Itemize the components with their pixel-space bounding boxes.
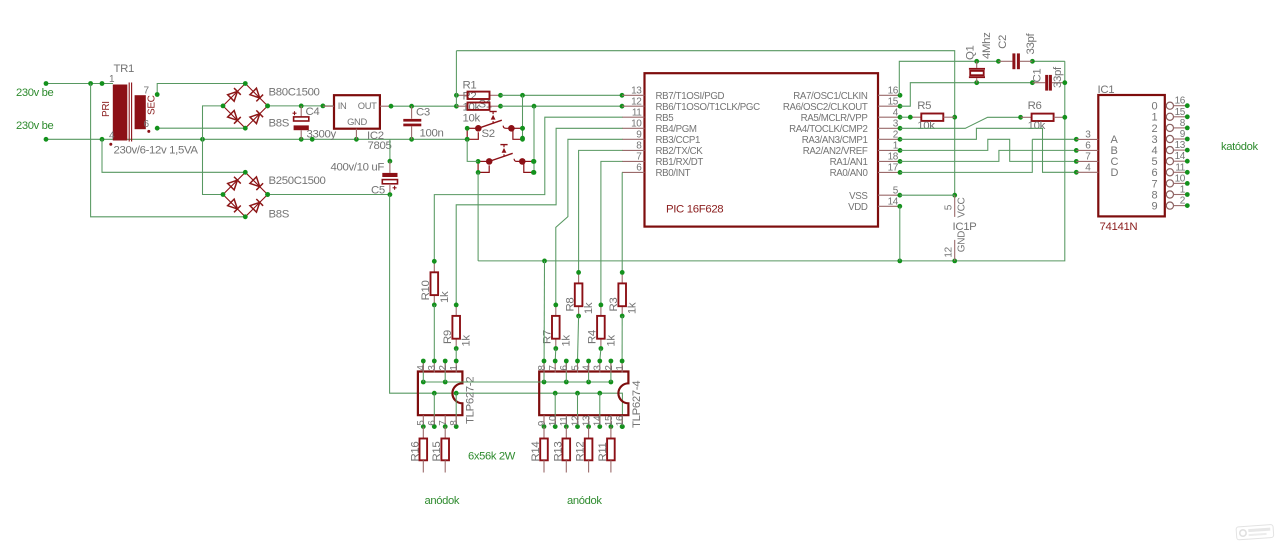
svg-text:RB2/TX/CK: RB2/TX/CK <box>656 146 704 157</box>
wire 230v line 1 <box>44 81 113 86</box>
svg-text:230v be: 230v be <box>16 120 53 132</box>
label 100n <box>420 128 444 140</box>
wire RB4 net PIC pin10 to R9 <box>456 128 622 305</box>
svg-text:9: 9 <box>1152 201 1158 213</box>
svg-text:3: 3 <box>1085 130 1091 141</box>
svg-text:R16: R16 <box>409 442 421 462</box>
svg-text:SEC: SEC <box>146 95 157 115</box>
svg-text:RA5/MCLR/VPP: RA5/MCLR/VPP <box>801 113 868 124</box>
svg-text:R8: R8 <box>564 298 576 312</box>
svg-text:10: 10 <box>548 415 559 426</box>
svg-text:12: 12 <box>570 415 581 426</box>
label GND <box>347 116 367 127</box>
svg-text:RB7/T1OSI/PGD: RB7/T1OSI/PGD <box>656 91 725 102</box>
svg-text:OUT: OUT <box>358 100 377 111</box>
label PRI <box>101 101 112 117</box>
svg-text:RB3/CCP1: RB3/CCP1 <box>656 135 701 146</box>
resistor R9 1k <box>452 303 460 351</box>
svg-text:R12: R12 <box>575 442 587 462</box>
wire RB5 net PIC pin11 to R10 <box>434 117 622 261</box>
wire TLP627-2 pin2 to cathode bus <box>444 361 446 382</box>
svg-text:1k: 1k <box>583 302 595 314</box>
label TR1 <box>114 63 134 75</box>
pin 13 of OC2 <box>582 415 593 429</box>
label 10k of R6 <box>1028 120 1046 132</box>
wire 230v line 1 to bridge2 bottom <box>91 84 246 217</box>
pin 2 of IC1 (output 9) <box>1152 196 1190 213</box>
svg-text:10: 10 <box>631 119 642 130</box>
svg-text:74141N: 74141N <box>1100 221 1138 233</box>
label katodok <box>1221 141 1258 153</box>
label R5 <box>917 100 931 112</box>
svg-text:15: 15 <box>1175 107 1186 118</box>
svg-text:7: 7 <box>548 365 559 371</box>
pin 9 of IC1 (output 3) <box>1152 129 1190 146</box>
svg-text:8: 8 <box>537 365 548 371</box>
wire R8 to TLP627-4 pin5 <box>578 316 579 361</box>
switch S1 <box>465 112 525 142</box>
svg-text:IC1: IC1 <box>1098 84 1115 96</box>
pin 11 of OC2 <box>559 415 570 429</box>
wire 7805 OUT 5V rail <box>389 104 459 109</box>
pin 16 of U1 (RA7/OSC1/CLKIN) <box>793 86 902 103</box>
wire TLP627-4 pin6 to cathode bus <box>565 361 567 382</box>
wire R4 to TLP627-4 pin3 <box>600 349 601 362</box>
svg-text:15: 15 <box>888 96 899 107</box>
wire OSC1 net pin16 to crystal and C2 <box>899 59 1001 95</box>
label 230v be (bottom) <box>16 120 53 132</box>
pin 12 of OC2 <box>570 415 581 429</box>
microcontroller U1 PIC 16F628 outline <box>645 73 879 226</box>
label 1k of R10 <box>439 291 451 303</box>
pin 3 of U1 (RA4/TOCLK/CMP2) <box>789 119 902 136</box>
label 33pf of C1 <box>1052 66 1064 88</box>
wire R1 to PIC pin13 RB7 <box>501 93 625 98</box>
svg-text:13: 13 <box>1175 140 1186 151</box>
label 1k of R4 <box>605 335 617 347</box>
label R12 <box>575 442 587 462</box>
resistor R5 10k <box>900 114 955 121</box>
wire supply rail VDD net <box>478 61 1065 263</box>
wire OSC2 net pin15 to crystal and C1 <box>900 80 1035 106</box>
wire RA2 to 74141 input C <box>900 139 1079 164</box>
svg-text:C3: C3 <box>416 106 430 118</box>
svg-text:9: 9 <box>636 130 642 141</box>
label 1k of R9 <box>461 335 473 347</box>
label R14 <box>530 442 542 462</box>
svg-text:2: 2 <box>604 365 615 371</box>
svg-text:R4: R4 <box>587 330 599 344</box>
svg-text:B8S: B8S <box>269 209 290 221</box>
svg-text:7805: 7805 <box>368 140 392 152</box>
pin 1 of U1 (RA2/AN2/VREF) <box>803 141 903 158</box>
label R13 <box>552 442 564 462</box>
label OUT <box>358 100 377 111</box>
resistor R1 <box>454 92 503 99</box>
svg-text:R3: R3 <box>608 298 620 312</box>
svg-text:8: 8 <box>449 420 460 426</box>
wire bridge1 plus to 7805 IN <box>265 104 334 109</box>
pin 13 of U1 (RB7/T1OSI/PGD) <box>622 86 725 103</box>
svg-text:7: 7 <box>636 152 642 163</box>
pin 8 of U1 (RB2/TX/CK) <box>622 141 703 158</box>
label 230v/6-12v 1,5VA <box>114 145 199 157</box>
svg-text:11: 11 <box>1175 162 1185 173</box>
svg-text:C1: C1 <box>1031 69 1043 83</box>
svg-text:RA6/OSC2/CLKOUT: RA6/OSC2/CLKOUT <box>783 102 868 113</box>
wire S2 to supply rail riser <box>477 172 479 261</box>
pin 2 of OC1 <box>438 359 449 373</box>
pin 8 of IC1 (output 2) <box>1152 118 1190 135</box>
resistor R2 <box>456 103 503 110</box>
svg-text:C2: C2 <box>997 35 1009 49</box>
svg-text:B80C1500: B80C1500 <box>269 87 320 99</box>
wire VSS to IC1P VCC <box>900 194 955 196</box>
pin 7 of OC2 <box>548 359 559 373</box>
svg-text:16: 16 <box>615 415 626 426</box>
svg-text:8: 8 <box>636 141 642 152</box>
pin 11 of IC1 (output 6) <box>1152 162 1190 179</box>
svg-text:11: 11 <box>559 416 570 426</box>
label B8S (B2) <box>269 209 290 221</box>
svg-text:1k: 1k <box>627 302 639 314</box>
wire RA0 to 74141 input A <box>900 137 1079 172</box>
svg-text:3: 3 <box>427 365 438 371</box>
pin 7 of IC1 (input C) <box>1076 152 1118 169</box>
pin 3 of OC2 <box>593 359 604 373</box>
label 4Mhz <box>981 32 993 59</box>
label C1 <box>1031 69 1043 83</box>
capacitor C5 <box>382 161 397 194</box>
crystal Q1 4Mhz <box>969 61 985 82</box>
svg-text:R6: R6 <box>1028 100 1042 112</box>
svg-text:RB0/INT: RB0/INT <box>656 168 691 179</box>
pin 3 of IC1 (input A) <box>1076 130 1118 147</box>
svg-text:10: 10 <box>1175 173 1186 184</box>
pin 16 of IC1 (output 0) <box>1152 96 1190 113</box>
pin 6 of OC2 <box>559 359 570 373</box>
label 1k of R8 <box>583 302 595 314</box>
pin 15 of U1 (RA6/OSC2/CLKOUT) <box>783 96 903 113</box>
pin 10 of OC2 <box>548 415 559 429</box>
label R1 <box>463 79 477 91</box>
resistor R4 1k <box>597 303 605 351</box>
wire RB2 net PIC pin8 to R8 <box>579 150 623 272</box>
svg-text:6: 6 <box>636 163 642 174</box>
optocoupler OC2 TLP627-4 outline <box>539 372 628 416</box>
svg-text:R1: R1 <box>463 79 477 91</box>
svg-text:GND: GND <box>347 116 367 127</box>
pin 5 of OC1 <box>416 415 427 429</box>
svg-text:6x56k 2W: 6x56k 2W <box>468 451 516 463</box>
pin 10 of IC1 (output 7) <box>1152 173 1190 190</box>
wire TLP627-2 pin6 to collector bus <box>433 393 435 426</box>
capacitor C4 <box>293 106 309 139</box>
wire C5 to ground rail <box>388 139 393 163</box>
wire R1 to S1 contacts <box>520 95 525 140</box>
svg-text:13: 13 <box>582 415 593 426</box>
pin 9 of OC2 <box>537 415 548 429</box>
pin 6 of IC1 (input B) <box>1076 141 1117 158</box>
svg-text:TR1: TR1 <box>114 63 134 75</box>
svg-text:RB4/PGM: RB4/PGM <box>656 124 697 135</box>
svg-text:1k: 1k <box>439 291 451 303</box>
resistor R15 56k <box>441 427 449 473</box>
label 400v/10 uF <box>331 161 385 173</box>
wire TLP627-2 pin4 to cathode bus <box>422 361 424 382</box>
svg-text:R14: R14 <box>530 442 542 462</box>
label IC2 <box>367 130 384 142</box>
svg-text:C4: C4 <box>306 106 320 118</box>
wire RA4 net pin3 to R6 <box>900 115 1023 128</box>
svg-text:VSS: VSS <box>849 191 868 202</box>
label 6x56k 2W <box>468 451 516 463</box>
pin 5 of U1 (VSS) <box>849 185 902 202</box>
svg-text:9: 9 <box>1180 129 1186 140</box>
wire RA3 to 74141 input D <box>900 128 1079 174</box>
label R11 <box>597 442 609 461</box>
pin 17 of U1 (RA0/AN0) <box>830 163 903 180</box>
svg-text:katódok: katódok <box>1221 141 1258 153</box>
pin 4 of IC1 (input D) <box>1076 162 1118 179</box>
resistor R11 56k <box>607 427 615 473</box>
wire RB1 net PIC pin7 to R4 <box>601 161 623 305</box>
svg-text:1: 1 <box>449 365 460 371</box>
pin 2 of U1 (RA3/AN3/CMP1) <box>802 130 903 147</box>
pin 7 of TR1 <box>144 86 150 97</box>
resistor R13 56k <box>563 427 571 473</box>
svg-text:1k: 1k <box>605 335 617 347</box>
svg-text:4Mhz: 4Mhz <box>981 32 993 59</box>
wire 5V to R1 R2 and top rail <box>456 51 957 198</box>
svg-text:VCC: VCC <box>957 198 968 218</box>
label 1k of R3 <box>627 302 639 314</box>
svg-text:6: 6 <box>144 119 150 130</box>
label anodok left <box>425 495 460 507</box>
resistor R3 1k <box>618 270 626 318</box>
svg-text:14: 14 <box>1175 151 1186 162</box>
svg-text:7: 7 <box>438 420 449 426</box>
pin 11 of U1 (RB5) <box>622 107 673 124</box>
svg-text:R10: R10 <box>420 281 432 301</box>
svg-text:D: D <box>1111 167 1119 179</box>
pin 6 of U1 (RB0/INT) <box>622 163 691 180</box>
label R9 <box>442 330 454 344</box>
polarity dot TR1 secondary <box>147 130 150 133</box>
svg-text:R5: R5 <box>917 100 931 112</box>
svg-text:RB6/T1OSO/T1CLK/PGC: RB6/T1OSO/T1CLK/PGC <box>656 102 761 113</box>
svg-text:RA1/AN1: RA1/AN1 <box>830 157 868 168</box>
wire RB0 net PIC pin6 to R3 <box>621 172 623 272</box>
watermark logo <box>1236 524 1274 540</box>
label 7805 <box>368 140 392 152</box>
svg-text:2: 2 <box>438 365 449 371</box>
svg-text:5: 5 <box>570 365 581 371</box>
label C3 <box>416 106 430 118</box>
label 10k of R5 <box>917 120 935 132</box>
power symbol IC1P VCC pin 5 <box>943 195 967 218</box>
svg-text:PRI: PRI <box>101 101 112 117</box>
voltage regulator IC2 7805 <box>323 95 391 139</box>
svg-text:RA3/AN3/CMP1: RA3/AN3/CMP1 <box>802 135 868 146</box>
label R16 <box>409 442 421 462</box>
label TLP627-4 <box>631 381 643 428</box>
svg-text:R9: R9 <box>442 330 454 344</box>
svg-text:3300y: 3300y <box>307 129 337 141</box>
svg-text:RA4/TOCLK/CMP2: RA4/TOCLK/CMP2 <box>789 124 867 135</box>
pin 4 of OC2 <box>582 359 593 373</box>
pin 7 of OC1 <box>438 415 449 429</box>
wire bridge2 plus to C5 plus <box>265 192 392 197</box>
pin 4 of OC1 <box>416 359 427 373</box>
pin 15 of IC1 (output 1) <box>1152 107 1190 124</box>
optocoupler OC1 TLP627-2 outline <box>418 372 463 416</box>
pin 9 of U1 (RB3/CCP1) <box>622 130 700 147</box>
capacitor C1 33pf <box>1032 75 1067 91</box>
svg-text:17: 17 <box>888 163 899 174</box>
pin 1 of IC1 (output 8) <box>1152 185 1190 202</box>
label 3300y <box>307 129 337 141</box>
wire TLP627-2 pin8 to collector bus <box>455 393 457 426</box>
svg-text:anódok: anódok <box>567 495 602 507</box>
svg-text:RA0/AN0: RA0/AN0 <box>830 168 869 179</box>
label Q1 <box>965 45 977 60</box>
label 33pf of C2 <box>1025 33 1037 55</box>
wire TLP627-4 pin10 to collector bus <box>554 393 556 426</box>
pin 7 of U1 (RB1/RX/DT) <box>622 152 703 169</box>
svg-text:PIC 16F628: PIC 16F628 <box>666 204 723 216</box>
wire 400V net C5 to optocoupler collectors <box>390 195 625 429</box>
wire TLP627-4 pin4 to cathode bus <box>588 361 590 382</box>
pin 18 of U1 (RA1/AN1) <box>830 152 903 169</box>
pin 4 of U1 (RA5/MCLR/VPP) <box>801 107 903 124</box>
power symbol IC1P GND pin 12 <box>943 231 967 261</box>
pin 16 of OC2 <box>615 415 626 429</box>
svg-text:33pf: 33pf <box>1025 33 1037 55</box>
pin 15 of OC2 <box>604 415 615 429</box>
label R8 <box>564 298 576 312</box>
svg-text:16: 16 <box>888 86 899 97</box>
svg-text:14: 14 <box>888 197 899 208</box>
pin 12 of U1 (RB6/T1OSO/T1CLK/PGC) <box>622 96 760 113</box>
wire R2 to S2 contacts <box>532 106 537 175</box>
label R10 <box>420 281 432 301</box>
svg-text:4: 4 <box>582 365 593 371</box>
svg-text:S2: S2 <box>482 128 495 140</box>
pin 3 of OC1 <box>427 359 438 373</box>
label B80C1500 <box>269 87 320 99</box>
wire bridge minus vertical <box>203 106 224 195</box>
svg-text:1: 1 <box>1180 185 1186 196</box>
svg-text:18: 18 <box>888 152 899 163</box>
pin 8 of OC2 <box>537 359 548 373</box>
pin 14 of U1 (VDD) <box>848 197 902 214</box>
pin 13 of IC1 (output 4) <box>1152 140 1190 157</box>
svg-text:B8S: B8S <box>269 118 290 130</box>
svg-text:5: 5 <box>943 204 954 210</box>
svg-text:9: 9 <box>537 420 548 426</box>
wire R2 to PIC pin12 RB6 <box>501 104 625 109</box>
svg-text:R15: R15 <box>431 442 443 462</box>
pin 1 of OC1 <box>449 359 460 373</box>
svg-text:15: 15 <box>604 415 615 426</box>
capacitor C3 <box>403 106 421 139</box>
label R15 <box>431 442 443 462</box>
resistor R12 56k <box>585 427 593 473</box>
transformer TR1 <box>113 83 146 142</box>
wire RB3 net PIC pin9 to R7 <box>556 139 623 305</box>
label S1 (hidden) <box>479 99 492 111</box>
pin 1 of OC2 <box>615 359 626 373</box>
label 1k of R7 <box>560 335 572 347</box>
wire R10 to TLP627-2 pin3 <box>433 305 435 361</box>
label PIC 16F628 <box>666 204 723 216</box>
pin 14 of OC2 <box>593 415 604 429</box>
label 230v be (top) <box>16 87 53 99</box>
label B8S (B1) <box>269 118 290 130</box>
switch S2 <box>476 145 536 175</box>
svg-text:6: 6 <box>559 365 570 371</box>
svg-text:12: 12 <box>943 246 954 257</box>
label IC1 <box>1098 84 1115 96</box>
nixie driver IC1 74141N outline <box>1098 95 1165 216</box>
wire TR1 pin4 to bridge2 top <box>102 139 245 172</box>
bridge rectifier B2 B250C1500 <box>221 170 270 219</box>
svg-text:230v/6-12v 1,5VA: 230v/6-12v 1,5VA <box>114 145 199 157</box>
pin 4 of TR1 <box>109 130 115 141</box>
capacitor C2 33pf <box>998 53 1032 69</box>
svg-text:7: 7 <box>144 86 150 97</box>
svg-text:13: 13 <box>631 86 642 97</box>
svg-text:33pf: 33pf <box>1052 66 1064 88</box>
pin 6 of OC1 <box>427 415 438 429</box>
svg-text:8: 8 <box>1180 118 1186 129</box>
svg-text:1: 1 <box>615 365 626 371</box>
polarity dot TR1 primary <box>109 143 112 146</box>
wire TLP627-4 pin14 to collector bus <box>599 393 601 426</box>
pin 2 of OC2 <box>604 359 615 373</box>
label SEC <box>146 95 157 115</box>
svg-text:4: 4 <box>416 365 427 371</box>
svg-text:2: 2 <box>1180 196 1186 207</box>
svg-text:5: 5 <box>416 420 427 426</box>
pin 1 of TR1 <box>109 74 115 85</box>
label C4 <box>306 106 320 118</box>
svg-text:GND: GND <box>957 231 968 252</box>
svg-text:7: 7 <box>1085 152 1091 163</box>
svg-text:16: 16 <box>1175 96 1186 107</box>
svg-text:1k: 1k <box>560 335 572 347</box>
wire R3 to TLP627-4 pin1 <box>621 316 623 361</box>
svg-text:Q1: Q1 <box>965 45 977 60</box>
svg-text:400v/10 uF: 400v/10 uF <box>331 161 385 173</box>
label IC1P <box>953 221 977 233</box>
label R7 <box>542 330 554 344</box>
svg-text:4: 4 <box>109 130 115 141</box>
label B250C1500 <box>269 175 326 187</box>
wire C2 right to ground vertical <box>1030 59 1065 64</box>
pin 10 of U1 (RB4/PGM) <box>622 119 697 136</box>
svg-text:RA7/OSC1/CLKIN: RA7/OSC1/CLKIN <box>793 91 868 102</box>
svg-text:TLP627-2: TLP627-2 <box>465 377 477 424</box>
pin 6 of TR1 <box>144 119 150 130</box>
wire cathode bus inside optocouplers <box>421 380 613 385</box>
wire VDD to supply rail <box>899 206 901 261</box>
svg-text:RB1/RX/DT: RB1/RX/DT <box>656 157 704 168</box>
svg-text:VDD: VDD <box>848 202 868 213</box>
label S2 <box>482 128 495 140</box>
svg-text:6: 6 <box>1085 141 1091 152</box>
